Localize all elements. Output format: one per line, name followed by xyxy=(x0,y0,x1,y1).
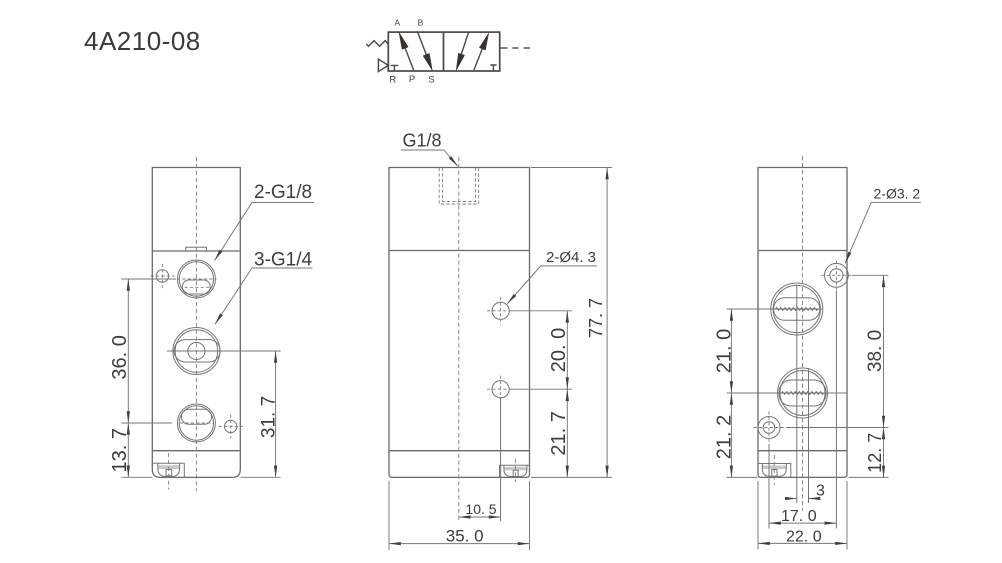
svg-text:13. 7: 13. 7 xyxy=(109,428,131,472)
svg-text:R: R xyxy=(389,74,396,85)
svg-text:B: B xyxy=(418,17,424,27)
svg-text:2-Ø3. 2: 2-Ø3. 2 xyxy=(874,186,921,202)
svg-text:35. 0: 35. 0 xyxy=(446,527,484,546)
svg-text:21. 2: 21. 2 xyxy=(713,415,735,459)
svg-text:21. 7: 21. 7 xyxy=(548,411,570,455)
svg-text:P: P xyxy=(409,74,415,85)
svg-text:20. 0: 20. 0 xyxy=(548,328,570,372)
svg-text:36. 0: 36. 0 xyxy=(109,335,131,379)
svg-text:A: A xyxy=(394,17,400,27)
svg-text:3-G1/4: 3-G1/4 xyxy=(254,250,313,271)
svg-text:77. 7: 77. 7 xyxy=(586,298,606,338)
svg-text:21. 0: 21. 0 xyxy=(713,329,735,373)
svg-text:38. 0: 38. 0 xyxy=(865,330,886,372)
svg-text:17. 0: 17. 0 xyxy=(781,508,817,525)
svg-text:4A210-08: 4A210-08 xyxy=(84,26,201,56)
svg-text:2-G1/8: 2-G1/8 xyxy=(254,182,312,203)
svg-text:12. 7: 12. 7 xyxy=(865,433,885,473)
svg-text:22. 0: 22. 0 xyxy=(786,529,822,546)
svg-text:31. 7: 31. 7 xyxy=(259,396,280,438)
svg-text:3: 3 xyxy=(816,483,825,500)
svg-text:S: S xyxy=(428,74,434,85)
svg-text:G1/8: G1/8 xyxy=(403,131,442,151)
svg-text:2-Ø4. 3: 2-Ø4. 3 xyxy=(546,249,596,266)
svg-text:10. 5: 10. 5 xyxy=(465,501,496,517)
